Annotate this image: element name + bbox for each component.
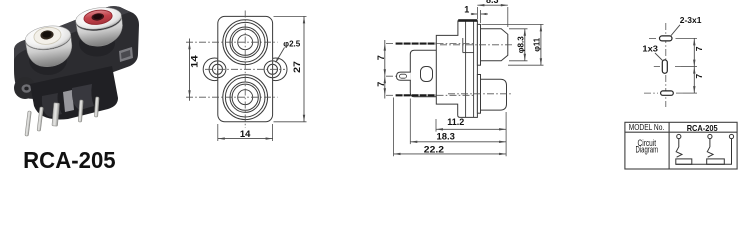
bottom bus wire [676, 139, 732, 165]
right ear boss [264, 58, 287, 81]
dimension 18.3 [409, 99, 411, 145]
slot in flange [421, 67, 433, 82]
dimension phi11 [482, 23, 544, 25]
switch arm 2 [707, 139, 710, 153]
dimension 14 (vertical, circle spacing) [189, 39, 191, 101]
svg-text:7: 7 [694, 74, 704, 79]
top pin (dark) [396, 43, 436, 45]
jack centerlines [440, 44, 513, 46]
label phi2.5 with leader [276, 48, 284, 62]
lower jack collar [477, 75, 480, 114]
left mounting hole [209, 61, 226, 78]
svg-text:7: 7 [694, 46, 704, 51]
dimension 22.2 [393, 98, 395, 157]
right mounting ear notch [119, 47, 133, 62]
top pad 3x1 [660, 36, 673, 41]
svg-text:2-3x1: 2-3x1 [680, 16, 702, 25]
upper jack collar [477, 24, 480, 65]
terminal 2 [708, 134, 712, 138]
bottom pad 3x1 [661, 91, 674, 95]
svg-text:7: 7 [376, 82, 386, 87]
dimension 7,7 pad spacing [693, 38, 695, 93]
svg-text:RCA-205: RCA-205 [687, 123, 718, 133]
body internal lines [465, 21, 467, 117]
upper jack barrel [481, 29, 508, 61]
middle pad 1x3 [662, 60, 667, 73]
switch arm 1 [676, 139, 679, 153]
svg-text:11.2: 11.2 [447, 117, 464, 127]
right mounting hole [264, 61, 281, 78]
metal bracket top (dark) [458, 19, 477, 22]
pad centerlines [649, 37, 657, 39]
dimension 11.2 [435, 119, 437, 132]
svg-text:14: 14 [240, 129, 251, 139]
dimension 8.3 (barrel length) [476, 7, 478, 19]
dimension 14 (bottom width) [217, 124, 219, 141]
bottom jack circles [223, 75, 268, 120]
white RCA jack [29, 45, 67, 75]
contact box 1 [676, 159, 692, 164]
centerlines front view [244, 11, 246, 129]
photo of dual RCA jack connector [14, 5, 139, 136]
svg-text:27: 27 [292, 61, 302, 73]
svg-text:7: 7 [376, 55, 386, 60]
svg-text:φ2.5: φ2.5 [283, 38, 300, 48]
terminal 1 [677, 134, 681, 138]
body outline [218, 16, 273, 121]
left ear boss [203, 58, 226, 81]
contact box 2 [707, 159, 725, 164]
dimension phi8.3 [509, 28, 528, 30]
metal pins [25, 97, 99, 136]
svg-text:1x3: 1x3 [642, 44, 658, 53]
svg-text:14: 14 [190, 55, 200, 68]
red RCA jack [79, 31, 115, 57]
dimension 1 (collar thickness) [480, 10, 482, 23]
top jack circles [223, 20, 268, 65]
bottom pin (dark) [396, 94, 436, 96]
svg-text:18.3: 18.3 [437, 131, 455, 141]
svg-text:1: 1 [464, 4, 469, 14]
dimension 27 (overall height) [274, 15, 307, 17]
svg-text:MODEL No.: MODEL No. [629, 123, 665, 132]
lower body posts [30, 66, 118, 119]
FRONT VIEW [203, 16, 287, 121]
terminal 3 [729, 134, 733, 138]
svg-text:φ8.3: φ8.3 [515, 36, 525, 53]
svg-text:Diagram: Diagram [636, 144, 659, 154]
TABLE [625, 122, 737, 169]
body outline [436, 21, 477, 118]
middle pin with slot [397, 72, 411, 80]
svg-text:8.3: 8.3 [486, 0, 499, 5]
dimension 7,7 pin spacing [384, 40, 386, 99]
left mounting ear with hole [14, 77, 36, 99]
circuit diagram [676, 134, 734, 164]
flange plate [410, 50, 436, 96]
svg-text:φ11: φ11 [531, 38, 541, 52]
black plastic body plate [14, 6, 139, 99]
vertical centerline [665, 23, 667, 107]
lower jack barrel [481, 79, 507, 110]
svg-text:RCA-205: RCA-205 [23, 147, 116, 173]
svg-text:22.2: 22.2 [424, 144, 444, 154]
